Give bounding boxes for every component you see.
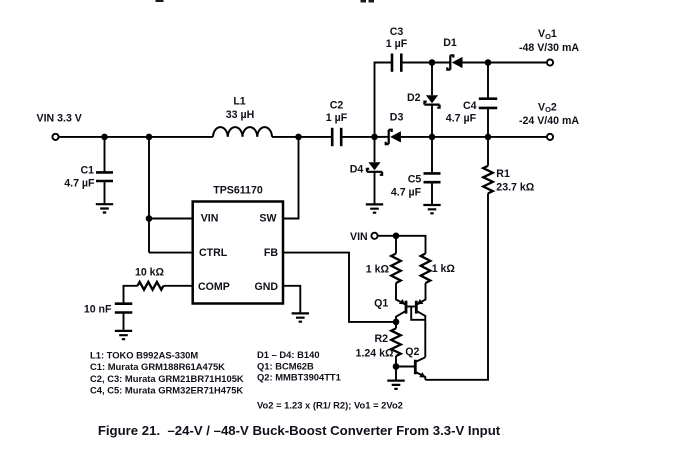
terminal Vo1 (547, 59, 553, 65)
svg-text:-24 V/40 mA: -24 V/40 mA (519, 115, 579, 127)
node C3/D4 column junction (371, 134, 378, 141)
svg-text:Q2: MMBT3904TT1: Q2: MMBT3904TT1 (257, 371, 341, 382)
node C4 top junction (485, 59, 492, 66)
node SW junction (295, 134, 302, 141)
resistor 1 kOhm right (421, 254, 456, 284)
resistor 1 kOhm left (366, 254, 401, 284)
diode D3 (Schottky) (375, 111, 404, 144)
node C4/R1 junction (485, 134, 492, 141)
svg-text:23.7 kΩ: 23.7 kΩ (496, 181, 534, 193)
ground R2 (387, 381, 404, 389)
inductor L1 (213, 95, 272, 136)
node D2 top junction (429, 59, 436, 66)
wire node column up to C3 row (375, 63, 393, 137)
svg-text:D3: D3 (390, 111, 404, 123)
ground C5 (423, 205, 440, 213)
svg-text:1 µF: 1 µF (326, 112, 348, 124)
svg-text:C4, C5: Murata GRM32ER71H475K: C4, C5: Murata GRM32ER71H475K (90, 385, 243, 396)
wire VIN branch down + pin connections (149, 137, 193, 253)
node FB junction (393, 319, 400, 326)
op-amp U1 TPS61170 box (193, 185, 283, 304)
ground D4 (366, 204, 383, 212)
svg-text:Q2: Q2 (405, 346, 419, 358)
svg-text:C5: C5 (408, 174, 422, 186)
node VIN pin junction (146, 215, 153, 222)
resistor R2 (356, 322, 401, 367)
node left 1k top (393, 233, 400, 240)
resistor R1 (483, 166, 535, 194)
svg-text:L1: TOKO B992AS-330M: L1: TOKO B992AS-330M (90, 349, 198, 360)
svg-text:1 kΩ: 1 kΩ (432, 263, 456, 275)
capacitor C1 (64, 137, 113, 204)
wire to ground (395, 367, 397, 381)
wire left 1k top (395, 236, 397, 254)
node C1 junction (101, 134, 108, 141)
wire VIN to resistors (378, 236, 426, 254)
svg-text:10 nF: 10 nF (84, 303, 112, 315)
svg-text:D1: D1 (443, 37, 457, 49)
wire L1 to C2 (272, 136, 332, 138)
svg-text:VIN: VIN (350, 231, 368, 243)
svg-text:VIN 3.3 V: VIN 3.3 V (37, 113, 82, 125)
svg-text:33 µH: 33 µH (226, 109, 254, 121)
ground 10 nF (115, 331, 132, 339)
BOM list right (257, 349, 341, 382)
wire D1 to Vo1 terminal (463, 62, 547, 64)
svg-text:SW: SW (259, 213, 276, 225)
wire VIN rail (59, 136, 213, 138)
svg-text:Q1: Q1 (374, 297, 388, 309)
wire D3 to Vo2 terminal (401, 136, 547, 138)
BOM list left (90, 349, 244, 395)
svg-text:CTRL: CTRL (199, 247, 228, 259)
terminal VIN (feedback) (371, 233, 377, 239)
wire SW pin to inductor node (283, 137, 299, 219)
capacitor 10 nF (84, 303, 132, 331)
svg-text:4.7 µF: 4.7 µF (64, 177, 95, 189)
capacitor C5 (391, 137, 441, 205)
svg-text:R1: R1 (496, 168, 510, 180)
svg-text:FB: FB (264, 247, 278, 259)
ground GND pin (292, 313, 309, 321)
svg-text:1 kΩ: 1 kΩ (366, 264, 390, 276)
svg-text:COMP: COMP (198, 281, 230, 293)
resistor 10 kOhm COMP (124, 267, 193, 304)
diode D4 (Schottky, down) (350, 137, 382, 205)
ground C1 (96, 204, 113, 212)
svg-text:D1 – D4: B140: D1 – D4: B140 (257, 349, 320, 360)
diode D1 (Schottky) (443, 37, 462, 70)
transistor Q2 (NPN) (396, 346, 426, 380)
terminal VIN input (52, 134, 58, 140)
svg-text:10 kΩ: 10 kΩ (135, 267, 165, 279)
svg-text:C2: C2 (330, 100, 344, 112)
capacitor C2 (326, 100, 348, 147)
wire R1 down to Q2 emitter (425, 193, 488, 379)
node VIN/CTRL branch junction (146, 134, 153, 141)
svg-text:D4: D4 (350, 164, 364, 176)
cropped header text remnant (361, 0, 367, 3)
svg-text:VIN: VIN (201, 213, 219, 225)
wire FB pin to feedback node (283, 253, 396, 322)
wire GND pin (283, 286, 300, 314)
svg-text:R2: R2 (374, 333, 388, 345)
svg-text:D2: D2 (407, 92, 421, 104)
svg-text:-48 V/30 mA: -48 V/30 mA (519, 42, 579, 54)
wire C2 to node (341, 136, 374, 138)
diode D2 (Schottky, down) (407, 63, 440, 137)
svg-text:L1: L1 (233, 95, 245, 107)
svg-text:C1: C1 (80, 165, 94, 177)
terminal Vo2 (547, 134, 553, 140)
svg-text:Q1: BCM62B: Q1: BCM62B (257, 360, 314, 371)
node R2 bottom / Q2 base (393, 363, 400, 370)
svg-text:GND: GND (254, 281, 278, 293)
node D2/C5 junction (429, 134, 436, 141)
capacitor C3 (386, 26, 408, 72)
svg-text:1.24 kΩ: 1.24 kΩ (356, 347, 394, 359)
svg-text:C3: C3 (390, 26, 404, 38)
svg-text:C2, C3: Murata GRM21BR71H105K: C2, C3: Murata GRM21BR71H105K (90, 373, 244, 384)
svg-text:C1: Murata GRM188R61A475K: C1: Murata GRM188R61A475K (90, 361, 225, 372)
svg-text:1 µF: 1 µF (386, 38, 408, 50)
wire C3 to D1 (401, 62, 450, 64)
svg-text:Figure 21. –24-V / –48-V Buck: Figure 21. –24-V / –48-V Buck-Boost Conv… (98, 423, 501, 438)
svg-text:4.7 µF: 4.7 µF (446, 113, 477, 125)
svg-text:TPS61170: TPS61170 (213, 185, 263, 197)
capacitor C4 (446, 63, 497, 166)
cropped header text remnant (156, 0, 164, 2)
svg-text:Vo2 = 1.23 x (R1/ R2); Vo1 = 2: Vo2 = 1.23 x (R1/ R2); Vo1 = 2Vo2 (257, 400, 403, 411)
transistor Q1 (dual PNP) (374, 283, 425, 357)
svg-text:4.7 µF: 4.7 µF (391, 187, 422, 199)
svg-text:C4: C4 (463, 100, 477, 112)
